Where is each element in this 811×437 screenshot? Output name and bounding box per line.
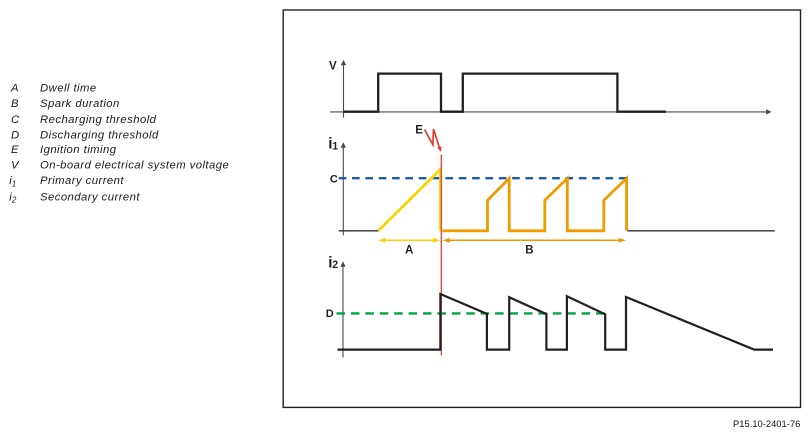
legend row C: Recharging threshold (11, 114, 157, 126)
legend row D: Discharging threshold (11, 129, 159, 141)
svg-text:D: D (11, 129, 20, 141)
i1 plot y-axis (341, 142, 346, 235)
svg-text:B: B (525, 245, 533, 257)
legend row V: On-board electrical system voltage (11, 160, 229, 172)
svg-text:Recharging threshold: Recharging threshold (40, 114, 157, 126)
svg-text:Ignition timing: Ignition timing (40, 144, 117, 156)
D discharging threshold green dashed line (337, 312, 605, 314)
V plot y-axis (341, 60, 346, 118)
E ignition timing red vertical line (440, 155, 442, 356)
legend row i1: Primary current (9, 175, 124, 188)
legend row E: Ignition timing (11, 144, 117, 156)
V plot x-axis (330, 109, 771, 114)
svg-text:V: V (329, 60, 337, 72)
svg-text:C: C (330, 173, 338, 185)
legend row i2: Secondary current (9, 191, 140, 204)
svg-text:E: E (415, 125, 423, 137)
i2 plot y-axis (340, 261, 345, 357)
svg-text:Discharging threshold: Discharging threshold (40, 129, 159, 141)
svg-text:Dwell time: Dwell time (40, 83, 97, 95)
V waveform (on-board voltage square wave) (344, 74, 666, 112)
i1 baseline segment after pulses (628, 230, 775, 232)
svg-text:A: A (405, 245, 413, 257)
svg-text:On-board electrical system vol: On-board electrical system voltage (40, 160, 229, 172)
svg-text:C: C (11, 114, 20, 126)
i1 baseline segment left of dwell ramp (339, 230, 379, 232)
C recharging threshold blue dashed line (339, 177, 627, 179)
svg-text:V: V (11, 160, 20, 172)
E ignition-timing lightning arrow (red) (425, 129, 440, 147)
svg-text:A: A (10, 83, 19, 95)
svg-text:Spark duration: Spark duration (40, 98, 120, 110)
frame border of plot area (283, 10, 800, 407)
svg-text:Primary current: Primary current (40, 175, 124, 187)
legend row B: Spark duration (11, 98, 120, 110)
B spark-duration span arrow (orange) (443, 238, 626, 243)
svg-text:B: B (11, 98, 19, 110)
A dwell-time span arrow (yellow) (378, 238, 440, 243)
svg-text:E: E (11, 144, 19, 156)
i2 secondary current waveform (338, 294, 774, 350)
i1 primary current dwell ramp (yellow) (378, 169, 440, 231)
svg-text:P15.10-2401-76: P15.10-2401-76 (733, 418, 800, 429)
svg-text:Secondary current: Secondary current (40, 191, 140, 203)
i1 primary current recharging pulses (orange) (442, 178, 626, 230)
legend row A: Dwell time (10, 83, 97, 95)
svg-text:D: D (326, 308, 334, 320)
